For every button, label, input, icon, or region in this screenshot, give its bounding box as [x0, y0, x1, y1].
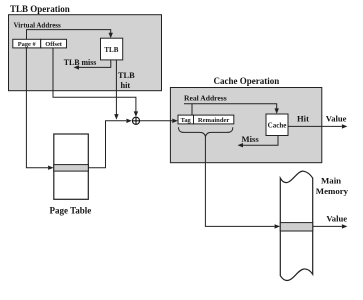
page table — [54, 134, 89, 199]
svg-text:Memory: Memory — [316, 186, 349, 196]
main memory cell strip — [280, 223, 312, 231]
svg-text:Real Address: Real Address — [184, 94, 227, 103]
wire: TLB miss arrow — [79, 60, 111, 68]
svg-text:hit: hit — [121, 81, 131, 90]
wire: real address line to cache — [184, 104, 277, 109]
svg-text:Main: Main — [321, 176, 341, 186]
svg-text:Page #: Page # — [18, 41, 37, 48]
wire: real address connector to tag register — [191, 104, 193, 115]
register Offset — [41, 39, 67, 48]
page table entry strip — [54, 165, 89, 172]
svg-text:TLB miss: TLB miss — [64, 58, 97, 67]
svg-text:Offset: Offset — [45, 41, 63, 48]
wire: page number to page table — [26, 48, 48, 168]
svg-text:Hit: Hit — [297, 113, 309, 123]
brace under tag/remainder — [179, 127, 233, 136]
register Tag — [178, 115, 194, 124]
svg-text:Remainder: Remainder — [198, 117, 230, 124]
svg-text:Value: Value — [326, 213, 347, 223]
svg-text:Cache Operation: Cache Operation — [214, 76, 280, 86]
TLB operation enclosure box — [9, 15, 162, 91]
svg-text:Page Table: Page Table — [50, 205, 92, 215]
wire: cache hit to value — [288, 125, 342, 127]
cache operation enclosure box — [170, 88, 321, 163]
wire: offset to adder — [53, 48, 136, 112]
wire: cache miss arrow — [243, 136, 278, 146]
register Remainder — [194, 115, 234, 124]
register Page # — [13, 39, 41, 48]
cache box — [266, 114, 288, 136]
wire: page table to adder feed line — [88, 121, 126, 168]
svg-text:TLB: TLB — [118, 71, 135, 80]
wire: adder to tag/remainder register — [140, 120, 173, 122]
main memory band — [280, 171, 312, 280]
svg-text:TLB Operation: TLB Operation — [10, 4, 70, 14]
TLB box — [101, 38, 123, 60]
svg-text:Value: Value — [326, 113, 347, 123]
svg-text:Cache: Cache — [268, 121, 287, 129]
svg-text:TLB: TLB — [104, 46, 118, 54]
adder (circled plus) — [132, 117, 139, 124]
svg-text:Miss: Miss — [242, 134, 260, 144]
svg-text:Tag: Tag — [181, 117, 192, 124]
wire: real address to main memory — [205, 136, 274, 226]
wire: page number to TLB — [27, 30, 111, 40]
wire: memory read to value — [313, 225, 342, 227]
svg-text:Virtual Address: Virtual Address — [14, 21, 62, 29]
wire: TLB hit to adder feed line — [115, 60, 117, 115]
